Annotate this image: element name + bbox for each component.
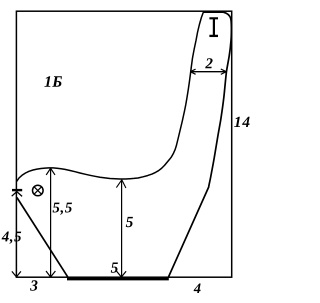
dimension line 5 vertical <box>121 180 123 276</box>
label 1Б <box>44 76 62 87</box>
pattern outline: top edge of neck <box>203 11 223 13</box>
pattern outline: right edge (neck corner down to bottom) <box>168 12 231 277</box>
label 2 <box>205 58 212 68</box>
label 5 (middle) <box>126 217 133 227</box>
pattern outline: lower-left slanted edge <box>17 198 68 278</box>
pattern outline: waist curve rising into neck left edge <box>17 12 205 181</box>
label 14 <box>234 117 249 127</box>
label 4,5 <box>2 232 22 244</box>
label 5 (bottom) <box>111 263 118 273</box>
symbol: grain mark I at top right <box>209 18 218 36</box>
border frame <box>16 11 231 277</box>
label 4 <box>194 284 201 294</box>
dimension line 5,5 vertical <box>50 169 52 277</box>
mark: circled cross <box>33 185 44 196</box>
label 5,5 <box>53 203 72 215</box>
dimension arrow 2 horizontal <box>191 71 226 73</box>
pattern outline: thick bottom edge <box>67 278 169 281</box>
label 3 <box>30 280 37 291</box>
mark: notch bar on left edge <box>12 189 22 191</box>
mark: arrowhead up (top of 4,5 dimension) <box>12 192 22 197</box>
dimension arrow bottom of 4,5 (on frame left edge) <box>12 271 21 277</box>
